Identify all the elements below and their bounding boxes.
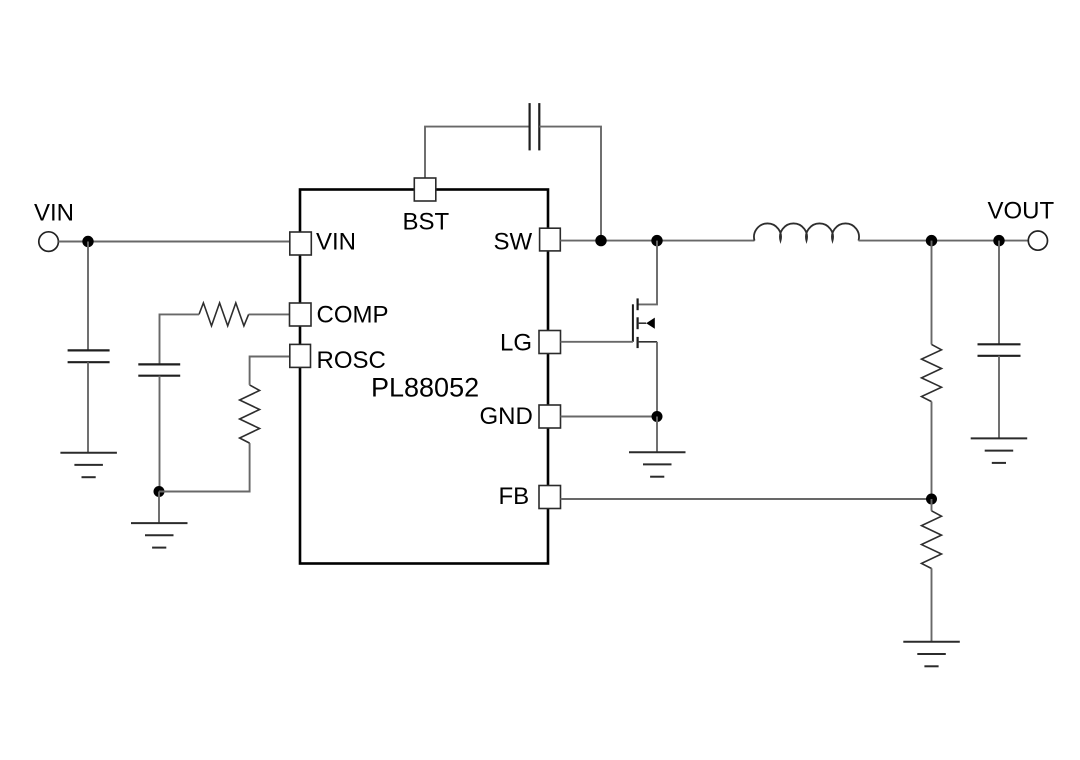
ground (input cap) <box>60 453 117 478</box>
svg-text:ROSC: ROSC <box>317 347 386 374</box>
wire output node down to upper divider resistor <box>931 241 933 345</box>
capacitor CCOMP compensation capacitor <box>138 364 180 375</box>
wire SW pin to inductor <box>560 240 754 242</box>
pin FB <box>539 486 561 509</box>
wire ground node to rosc resistor <box>159 443 250 491</box>
junction SW/drain node <box>651 235 662 246</box>
wire compensation resistor to comp cap <box>160 314 200 364</box>
pin BST <box>414 178 436 201</box>
wire LG pin to mosfet gate <box>561 341 633 343</box>
wire input node down to input cap <box>87 242 89 351</box>
capacitor CBST bootstrap capacitor <box>530 103 540 150</box>
capacitor COUT output capacitor <box>978 344 1021 356</box>
wire comp cap to ground junction <box>159 376 161 492</box>
wire VIN terminal to VIN pin <box>58 241 290 243</box>
wire FB node to lower divider resistor <box>931 499 933 511</box>
wire bootstrap cap to SW node <box>539 127 601 241</box>
ground (feedback divider) <box>903 642 960 667</box>
svg-text:VOUT: VOUT <box>988 198 1055 225</box>
capacitor CIN input capacitor <box>68 350 110 362</box>
junction output cap node <box>993 235 1004 246</box>
svg-text:GND: GND <box>480 403 533 430</box>
resistor R2 lower feedback resistor <box>922 511 942 569</box>
resistor ROSC oscillator resistor <box>240 385 260 443</box>
ground (comp/rosc) <box>131 523 188 548</box>
wire BST pin up and over <box>425 127 530 178</box>
junction SW/BST node <box>595 235 606 246</box>
transistor Q1 low-side MOSFET <box>633 298 657 348</box>
wire inductor to VOUT terminal <box>859 240 1029 242</box>
wire GND pin to gnd node <box>561 416 658 418</box>
wire output cap node down to output cap <box>998 241 1000 345</box>
svg-text:BST: BST <box>403 209 450 236</box>
pin COMP <box>290 303 312 326</box>
svg-text:PL88052: PL88052 <box>371 373 479 403</box>
resistor RCOMP compensation resistor <box>199 303 249 326</box>
IC U1 PL88052 body <box>300 190 548 564</box>
junction FB node <box>926 494 937 505</box>
wire rosc resistor to ROSC pin <box>250 357 290 385</box>
wire COMP pin to compensation resistor <box>249 313 290 315</box>
wire lower divider resistor to ground <box>931 568 933 642</box>
wire upper divider resistor to FB node <box>931 402 933 499</box>
resistor R1 upper feedback resistor <box>922 344 942 401</box>
wire gnd node to ground <box>656 417 658 453</box>
junction output/feedback node <box>926 235 937 246</box>
junction input node <box>82 236 93 247</box>
svg-text:FB: FB <box>499 483 530 510</box>
svg-text:LG: LG <box>500 330 532 357</box>
svg-text:VIN: VIN <box>34 200 74 227</box>
svg-text:COMP: COMP <box>317 302 389 329</box>
node VIN terminal <box>39 232 59 252</box>
junction comp/rosc ground node <box>154 486 165 497</box>
svg-text:VIN: VIN <box>316 229 356 256</box>
pin ROSC <box>290 344 311 367</box>
wire output cap to ground <box>998 356 1000 439</box>
node VOUT terminal <box>1028 231 1047 250</box>
wire mosfet source down to gnd node <box>656 342 658 417</box>
wire SW node down to mosfet drain <box>638 241 657 305</box>
pin LG <box>539 331 561 354</box>
wire ground node to ground <box>158 492 160 524</box>
ground (output cap) <box>971 438 1027 463</box>
inductor L1 <box>754 223 859 240</box>
svg-text:SW: SW <box>494 229 533 256</box>
pin VIN <box>290 232 312 255</box>
pin SW <box>540 228 561 251</box>
junction source/gnd node <box>652 411 663 422</box>
ground (mosfet source / GND pin) <box>629 452 686 477</box>
pin GND <box>539 405 561 428</box>
wire FB pin to feedback divider <box>561 498 932 500</box>
wire input cap to ground <box>87 362 89 453</box>
